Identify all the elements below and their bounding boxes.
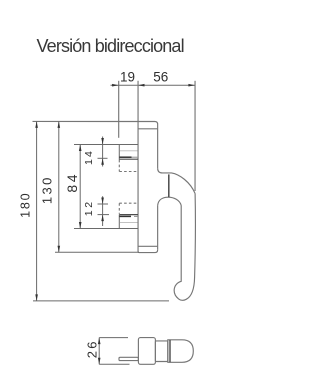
- 12 arrows (outside): [101, 198, 104, 205]
- 180 arrows: [35, 121, 38, 128]
- bottom ext y=252.1 for 130: [55, 251, 139, 253]
- dashed bottom: [119, 171, 138, 173]
- dim line 14 segments: [102, 137, 104, 145]
- dashed top: [119, 202, 138, 204]
- collar: [155, 341, 167, 362]
- upper cassette band: [120, 150, 138, 152]
- plate cross-section: [138, 338, 155, 365]
- neck bottom dome: [158, 197, 182, 205]
- body edge below neck: [157, 205, 159, 249]
- svg-text:56: 56: [153, 69, 168, 84]
- lower cassette: [119, 203, 138, 228]
- handle plate (side view): [33, 81, 196, 300]
- plate outline with left extension up to dim line: [138, 81, 158, 253]
- tick y=228.5 (84 bottom / cassette bottom): [74, 228, 138, 230]
- solid left edge: [118, 145, 120, 160]
- ring line: [138, 245, 157, 247]
- 14 arrows (outside): [101, 138, 104, 145]
- dashed left edge: [118, 203, 120, 214]
- spindle bar: [119, 357, 138, 360]
- tick y=144.5 (84 top / cassette top): [74, 144, 138, 146]
- dim line 130: [58, 121, 60, 252]
- bottom ext y=300.9 for 180: [33, 300, 169, 302]
- svg-text:19: 19: [120, 69, 135, 84]
- neck bend contour line: [168, 174, 170, 197]
- svg-text:180: 180: [19, 192, 33, 218]
- lower cassette band: [119, 214, 138, 216]
- neck top and swoop: [158, 168, 195, 193]
- solid left edge: [118, 215, 120, 229]
- grip outer edge: [174, 194, 195, 301]
- svg-text:26: 26: [85, 339, 100, 358]
- short tick y=214.6 for 12: [98, 214, 110, 216]
- svg-text:130: 130: [40, 175, 55, 204]
- svg-text:12: 12: [83, 199, 95, 216]
- arrows left dims: [35, 121, 104, 301]
- short tick y=158.3 for 14: [98, 157, 108, 159]
- short tick y=204 for 12: [98, 203, 109, 205]
- svg-text:14: 14: [83, 149, 95, 165]
- 84 arrows: [79, 145, 82, 152]
- svg-text:Versión bidireccional: Versión bidireccional: [37, 36, 184, 56]
- grip end cap line: [169, 340, 171, 362]
- dim line 180: [36, 121, 38, 301]
- dim line 12 segments: [102, 196, 104, 204]
- cap line: [138, 128, 157, 130]
- dim line 26: [98, 338, 100, 365]
- wire top extension line x=118.7: [118, 81, 120, 138]
- bottom ext: [99, 363, 129, 365]
- svg-text:84: 84: [64, 172, 80, 193]
- left dimension extension/tick lines: [33, 121, 169, 301]
- wire top extension line x=194.8: [194, 81, 196, 191]
- top ext: [99, 337, 128, 339]
- dim line 84: [79, 145, 81, 229]
- dashed left edge: [118, 160, 120, 172]
- grip (bottom view): [168, 340, 194, 363]
- upper cassette: [119, 145, 138, 172]
- 130 arrows: [58, 121, 61, 128]
- dimension 19/56 line: [111, 84, 196, 86]
- arrows for 19/56: [112, 84, 195, 87]
